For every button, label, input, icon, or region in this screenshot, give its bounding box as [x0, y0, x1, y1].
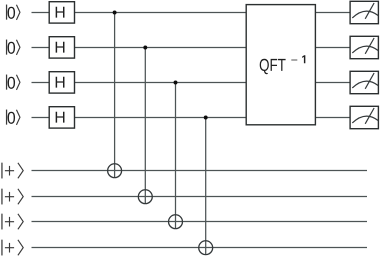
H gate row q2: [49, 72, 74, 93]
vertical control wire CNOT3: [175, 83, 177, 229]
ket label |+&gt; qubit t3: [2, 240, 23, 256]
wire t2: [32, 221, 368, 223]
CNOT target X3 on t2: [169, 215, 183, 229]
measurement meter M0 on q0: [350, 1, 378, 23]
wire q0 right segment: [315, 12, 350, 14]
ket label |0&gt; qubit q1: [7, 40, 20, 55]
CNOT target X1 on t0: [108, 164, 122, 178]
wire t1: [32, 196, 368, 198]
CNOT target X2 on t1: [138, 190, 152, 204]
wire q2 right segment: [315, 82, 350, 84]
control dot CNOT4 on q3: [204, 116, 208, 120]
control dot CNOT1 on q0: [113, 11, 117, 15]
measurement meter M3 on q3: [350, 106, 378, 128]
control dot CNOT3 on q2: [174, 81, 178, 85]
wire q3 left segment: [32, 117, 50, 119]
H gate row q0: [49, 2, 74, 23]
wire q0 left segment: [32, 12, 50, 14]
vertical control wire CNOT1: [114, 13, 116, 178]
measurement meter M1 on q1: [350, 36, 378, 58]
ket label |0&gt; qubit q3: [7, 110, 20, 125]
wire q1 left segment: [32, 47, 50, 49]
wire q1 right segment: [315, 47, 350, 49]
wire t0: [32, 170, 368, 172]
wire q3 middle segment: [74, 117, 246, 119]
H gate row q3: [49, 107, 74, 128]
CNOT target X4 on t3: [199, 241, 213, 255]
wire q0 middle segment: [74, 12, 246, 14]
control dot CNOT2 on q1: [143, 46, 147, 50]
wire t3: [32, 247, 368, 249]
ket label |0&gt; qubit q0: [7, 5, 20, 20]
ket label |0&gt; qubit q2: [7, 75, 20, 90]
H gate row q1: [49, 37, 74, 58]
wire q1 middle segment: [74, 47, 246, 49]
ket label |+&gt; qubit t2: [2, 214, 23, 230]
wire q2 left segment: [32, 82, 50, 84]
vertical control wire CNOT2: [144, 48, 146, 204]
ket label |+&gt; qubit t1: [2, 189, 23, 205]
inverse QFT box U1: [246, 5, 315, 125]
wire q2 middle segment: [74, 82, 246, 84]
measurement meter M2 on q2: [350, 71, 378, 93]
wire q3 right segment: [315, 117, 350, 119]
ket label |+&gt; qubit t0: [2, 163, 23, 179]
vertical control wire CNOT4: [205, 118, 207, 255]
